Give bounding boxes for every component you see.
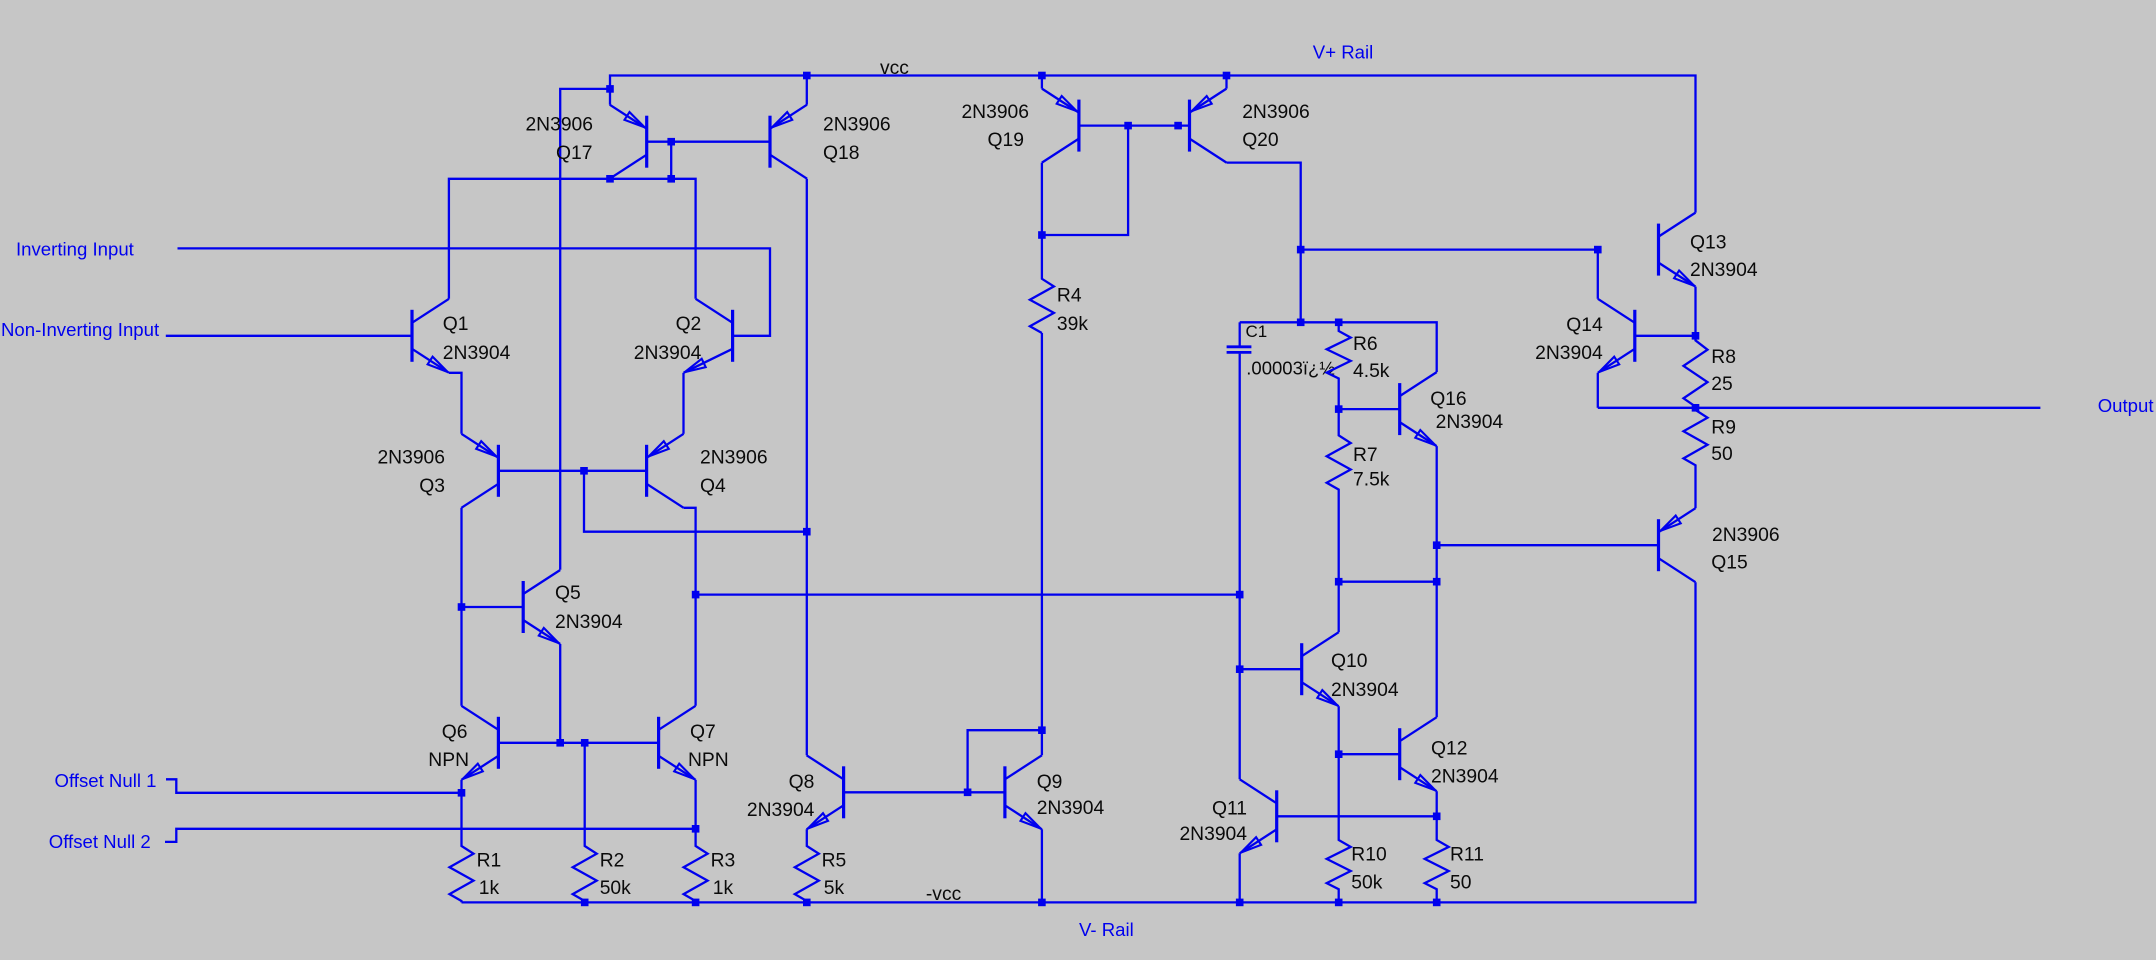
svg-text:R6: R6 xyxy=(1353,334,1378,355)
transistor Q2 (2N3904 NPN) xyxy=(634,299,733,373)
svg-text:R2: R2 xyxy=(600,851,625,872)
wire Q14 collector riser xyxy=(1597,250,1599,299)
transistor Q9 (2N3904 NPN) xyxy=(1005,755,1105,829)
svg-text:2N3906: 2N3906 xyxy=(961,102,1029,123)
svg-text:Q13: Q13 xyxy=(1690,233,1726,254)
wire R4 bottom to Q9 collector xyxy=(1041,333,1043,755)
junction at (1436.7,902.4) xyxy=(1433,899,1441,907)
junction at (1338.7,902.4) xyxy=(1335,899,1343,907)
junction at (461.5,607) xyxy=(458,603,466,611)
wire Q20 collector to C1 node xyxy=(1227,163,1301,323)
wire Q2 emitter to Q4 emitter xyxy=(682,373,684,434)
junction at (1338.7,754.2) xyxy=(1335,750,1343,758)
resistor R7 7.5k xyxy=(1327,409,1390,582)
wire Q6-Q7 base link xyxy=(498,742,658,744)
junction at (1597.8,249.6) xyxy=(1594,246,1602,254)
svg-text:Q3: Q3 xyxy=(419,476,445,497)
transistor Q3 (2N3906 PNP) xyxy=(377,434,498,508)
wire C1 top lead xyxy=(1239,322,1241,345)
svg-text:50: 50 xyxy=(1711,444,1732,465)
resistor R11 50 xyxy=(1425,816,1484,902)
wire Q16 emitter to Q15 base xyxy=(1437,544,1659,546)
transistor Q12 (2N3904 NPN) xyxy=(1400,717,1499,791)
wire V- rail xyxy=(462,582,1696,902)
svg-text:C1: C1 xyxy=(1246,322,1268,341)
svg-text:Q18: Q18 xyxy=(823,143,859,164)
svg-text:NPN: NPN xyxy=(428,750,469,771)
resistor R9 50 xyxy=(1684,408,1736,508)
svg-text:5k: 5k xyxy=(824,878,845,899)
svg-text:2N3904: 2N3904 xyxy=(1037,798,1105,819)
wire Q13 emitter to Q14 base node xyxy=(1694,287,1696,336)
wire Q14 emitter drop to output xyxy=(1597,373,1599,408)
wire C1/R6 top link to Q16 collector xyxy=(1240,322,1437,372)
wire Q5 base xyxy=(462,606,524,608)
wire offset null 2 hook xyxy=(165,829,696,842)
wire Q20 emitter stub xyxy=(1225,76,1227,89)
wire Q19-Q20 base link xyxy=(1079,124,1190,126)
svg-text:V- Rail: V- Rail xyxy=(1079,919,1134,940)
junction at (1239.7,669.2) xyxy=(1236,665,1244,673)
svg-text:2N3906: 2N3906 xyxy=(377,447,445,468)
junction at (1436.7,545.2) xyxy=(1433,541,1441,549)
junction at (1695.5,335.8) xyxy=(1692,332,1700,340)
svg-text:NPN: NPN xyxy=(688,750,729,771)
junction at (584,470.8) xyxy=(580,467,588,475)
svg-text:2N3906: 2N3906 xyxy=(1242,102,1310,123)
resistor R3 1k xyxy=(684,829,736,903)
transistor Q19 (2N3906 PNP) xyxy=(961,89,1078,163)
svg-text:Q20: Q20 xyxy=(1242,130,1278,151)
svg-text:R10: R10 xyxy=(1351,845,1386,866)
junction at (1239.7,902.4) xyxy=(1236,899,1244,907)
wire Q20 collector to Q13 base xyxy=(1301,248,1598,250)
junction at (1436.7,816.3) xyxy=(1433,813,1441,821)
svg-text:Q2: Q2 xyxy=(676,314,702,335)
svg-text:R11: R11 xyxy=(1450,845,1484,866)
resistor R6 4.5k xyxy=(1327,322,1390,409)
junction at (1300.7,322.3) xyxy=(1297,319,1305,327)
junction at (1300.7,249.6) xyxy=(1297,246,1305,254)
svg-text:Q16: Q16 xyxy=(1430,389,1466,410)
wire inverting input to Q2 base xyxy=(178,248,771,335)
wire Q18 emitter stub xyxy=(806,76,808,105)
transistor Q20 (2N3906 PNP) xyxy=(1190,89,1310,163)
junction at (967.6,792.3) xyxy=(964,789,972,797)
svg-text:R7: R7 xyxy=(1353,445,1378,466)
svg-text:2N3904: 2N3904 xyxy=(1431,767,1499,788)
wire Q3/Q4 base tie to Q18 collector xyxy=(584,471,807,532)
capacitor C1 xyxy=(1227,322,1335,379)
svg-text:7.5k: 7.5k xyxy=(1353,469,1390,490)
svg-text:Q4: Q4 xyxy=(700,476,726,497)
svg-text:R9: R9 xyxy=(1711,418,1736,439)
svg-text:Output: Output xyxy=(2098,395,2155,416)
junction at (461.5,792.8) xyxy=(458,789,466,797)
svg-text:R3: R3 xyxy=(711,851,736,872)
svg-text:2N3904: 2N3904 xyxy=(555,612,623,633)
resistor R8 25 xyxy=(1684,336,1736,408)
wire Q6 emitter drop xyxy=(460,780,462,793)
wire Q18 collector drop to Q8 xyxy=(806,179,808,756)
svg-text:2N3906: 2N3906 xyxy=(525,115,593,136)
svg-text:vcc: vcc xyxy=(880,58,909,79)
wire Q10 base xyxy=(1240,668,1302,670)
junction at (695.6,902.4) xyxy=(692,899,700,907)
wire Q3-Q4 base link xyxy=(498,470,646,472)
svg-text:Q1: Q1 xyxy=(443,314,469,335)
svg-text:R1: R1 xyxy=(477,851,502,872)
wire Q19 collector drop to R4 xyxy=(1041,163,1043,235)
wire Q11 emitter drop xyxy=(1239,853,1241,902)
resistor R10 50k xyxy=(1327,754,1387,902)
svg-text:.00003ï¿½: .00003ï¿½ xyxy=(1246,358,1334,379)
svg-text:25: 25 xyxy=(1711,374,1732,395)
wire Q3 collector to Q6 collector xyxy=(460,508,462,706)
svg-text:Q12: Q12 xyxy=(1431,739,1467,760)
wire Q19 emitter stub xyxy=(1041,76,1043,89)
junction at (610,178.8) xyxy=(606,175,614,183)
transistor Q11 (2N3904 NPN) xyxy=(1179,779,1276,853)
wire Q4 collector drop to Q7 collector xyxy=(684,508,696,706)
wire Q9 base-collector tie xyxy=(968,730,1042,792)
transistor Q14 (2N3904 NPN) xyxy=(1535,299,1635,373)
svg-text:Offset Null 1: Offset Null 1 xyxy=(55,770,157,791)
junction at (610,88.9) xyxy=(606,85,614,93)
wire R7 bottom link xyxy=(1339,581,1437,583)
svg-text:2N3904: 2N3904 xyxy=(1535,343,1603,364)
svg-text:R4: R4 xyxy=(1057,286,1082,307)
junction at (806.8,531.7) xyxy=(803,528,811,536)
wire Q17 emitter feed to Q5 collector xyxy=(560,89,610,570)
transistor Q10 (2N3904 NPN) xyxy=(1302,632,1399,706)
svg-text:Q5: Q5 xyxy=(555,583,581,604)
junction at (560.2,742.8) xyxy=(556,739,564,747)
svg-text:Q8: Q8 xyxy=(789,772,815,793)
svg-text:R8: R8 xyxy=(1711,347,1736,368)
svg-text:Q9: Q9 xyxy=(1037,772,1063,793)
svg-text:Q10: Q10 xyxy=(1331,651,1367,672)
junction at (1226.5,75.5) xyxy=(1223,72,1231,80)
svg-text:-vcc: -vcc xyxy=(926,884,962,905)
wire V+ rail (vcc) xyxy=(610,76,1696,213)
wire C1 node to Q11 collector xyxy=(1239,595,1241,780)
svg-text:Inverting Input: Inverting Input xyxy=(16,239,135,260)
transistor Q7 (NPN) xyxy=(659,706,729,780)
wire Q9 emitter drop xyxy=(1041,829,1043,902)
junction at (695.6,594.6) xyxy=(692,591,700,599)
junction at (1338.7,322.3) xyxy=(1335,319,1343,327)
svg-text:Non-Inverting Input: Non-Inverting Input xyxy=(1,319,160,340)
transistor Q15 (2N3906 PNP) xyxy=(1659,508,1780,582)
junction at (671.2,178.8) xyxy=(667,175,675,183)
wire Q16 emitter to Q12 collector xyxy=(1436,446,1438,717)
svg-text:2N3904: 2N3904 xyxy=(1179,824,1247,845)
svg-text:2N3904: 2N3904 xyxy=(443,343,511,364)
transistor Q5 (2N3904 NPN) xyxy=(523,570,623,644)
junction at (1128.1,125.6) xyxy=(1124,122,1132,130)
wire Q1 emitter to Q3 emitter xyxy=(449,373,462,434)
wire Q10 emitter to Q12 base xyxy=(1338,706,1340,754)
transistor Q13 (2N3904 NPN) xyxy=(1659,213,1758,287)
junction at (1041.9,235) xyxy=(1038,231,1046,239)
resistor R5 5k xyxy=(795,829,846,902)
junction at (1041.9,730.2) xyxy=(1038,726,1046,734)
junction at (671.2,141.7) xyxy=(667,138,675,146)
svg-text:Q19: Q19 xyxy=(988,130,1024,151)
svg-text:50k: 50k xyxy=(600,878,631,899)
junction at (1338.7,409.1) xyxy=(1335,405,1343,413)
wire Q8-Q9 base link xyxy=(844,791,1005,793)
svg-text:50: 50 xyxy=(1450,873,1471,894)
transistor Q18 (2N3906 PNP) xyxy=(770,105,891,179)
transistor Q4 (2N3906 PNP) xyxy=(647,434,768,508)
wire offset null 1 hook xyxy=(166,779,462,793)
resistor R1 1k xyxy=(450,793,502,903)
wire non-inverting input to Q1 base xyxy=(166,335,412,337)
svg-text:Offset Null 2: Offset Null 2 xyxy=(49,831,151,852)
junction at (695.6,828.8) xyxy=(692,825,700,833)
wire Q12 emitter drop xyxy=(1436,791,1438,816)
wire node A to C1 bottom (long mid line) xyxy=(696,593,1240,595)
svg-text:1k: 1k xyxy=(479,878,500,899)
wire Q10 collector riser xyxy=(1338,582,1340,633)
svg-text:2N3904: 2N3904 xyxy=(1436,412,1504,433)
transistor Q8 (2N3904 NPN) xyxy=(747,755,844,829)
junction at (1338.7,581.7) xyxy=(1335,578,1343,586)
resistor R4 39k xyxy=(1030,235,1088,335)
svg-text:2N3904: 2N3904 xyxy=(1690,260,1758,281)
svg-text:1k: 1k xyxy=(713,878,734,899)
svg-text:2N3904: 2N3904 xyxy=(747,800,815,821)
wire Q7 emitter drop xyxy=(694,780,696,829)
junction at (584.7,742.8) xyxy=(581,739,589,747)
svg-text:2N3904: 2N3904 xyxy=(1331,680,1399,701)
svg-text:R5: R5 xyxy=(822,851,847,872)
wire C1 bottom lead xyxy=(1239,354,1241,595)
svg-text:39k: 39k xyxy=(1057,314,1088,335)
svg-text:2N3906: 2N3906 xyxy=(700,447,768,468)
junction at (584.7,902.4) xyxy=(581,899,589,907)
wire Q12 base xyxy=(1339,753,1400,755)
junction at (1695.5,407.8) xyxy=(1692,404,1700,412)
svg-text:2N3906: 2N3906 xyxy=(1712,525,1780,546)
svg-text:2N3904: 2N3904 xyxy=(634,343,702,364)
transistor Q1 (2N3904 NPN) xyxy=(412,299,511,373)
svg-text:Q7: Q7 xyxy=(690,722,716,743)
svg-text:Q6: Q6 xyxy=(442,722,468,743)
junction at (1041.9,75.5) xyxy=(1038,72,1046,80)
wire Q17-Q18 base link xyxy=(647,141,770,143)
wire Q11 base line xyxy=(1277,815,1437,817)
wire Q19 base-collector tie xyxy=(1042,126,1128,235)
transistor Q6 (NPN) xyxy=(428,706,498,780)
wire Q17 emitter stub xyxy=(609,89,611,105)
svg-text:50k: 50k xyxy=(1351,873,1382,894)
wire output line xyxy=(1598,407,2041,409)
svg-text:Q11: Q11 xyxy=(1212,799,1247,820)
svg-text:Q15: Q15 xyxy=(1711,553,1747,574)
svg-text:V+ Rail: V+ Rail xyxy=(1313,41,1373,62)
transistor Q16 (2N3904 NPN) xyxy=(1400,372,1504,446)
junction at (1436.7,581.7) xyxy=(1433,578,1441,586)
wire Q5 emitter drop xyxy=(559,644,561,743)
junction at (806.8,902.4) xyxy=(803,899,811,907)
transistor Q17 (2N3906 PNP) xyxy=(525,105,646,179)
svg-text:2N3906: 2N3906 xyxy=(823,115,891,136)
resistor R2 50k xyxy=(573,743,631,903)
junction at (1041.9,902.4) xyxy=(1038,899,1046,907)
wire Q16 base xyxy=(1339,408,1400,410)
wire mirror collector bus y=179 xyxy=(449,179,696,299)
wire Q14 base xyxy=(1635,335,1696,337)
svg-text:4.5k: 4.5k xyxy=(1353,361,1390,382)
junction at (1239.7,594.6) xyxy=(1236,591,1244,599)
svg-text:Q17: Q17 xyxy=(556,143,592,164)
wire Q17 base-collector tie xyxy=(670,142,672,179)
junction at (1178.1,125.6) xyxy=(1174,122,1182,130)
junction at (806.8,75.5) xyxy=(803,72,811,80)
svg-text:Q14: Q14 xyxy=(1566,315,1603,336)
